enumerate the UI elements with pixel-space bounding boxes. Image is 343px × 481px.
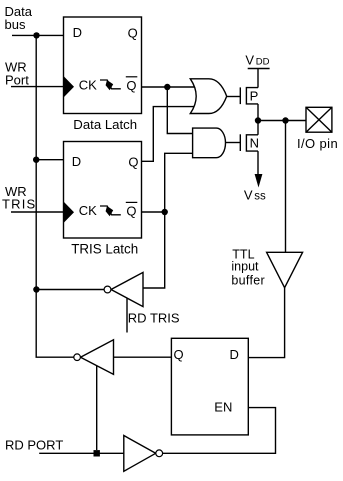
svg-text:CK: CK xyxy=(79,77,97,92)
svg-text:DD: DD xyxy=(256,57,270,68)
svg-text:P: P xyxy=(250,88,259,103)
svg-text:Data Latch: Data Latch xyxy=(73,117,137,132)
svg-text:D: D xyxy=(73,25,82,40)
svg-text:CK: CK xyxy=(79,203,97,218)
svg-text:D: D xyxy=(230,347,239,362)
svg-text:TRIS Latch: TRIS Latch xyxy=(71,242,138,257)
svg-text:V: V xyxy=(244,188,253,203)
svg-text:ss: ss xyxy=(254,191,266,203)
svg-text:D: D xyxy=(72,154,81,169)
svg-text:Q: Q xyxy=(126,204,136,219)
svg-text:TRIS: TRIS xyxy=(2,196,36,211)
svg-text:RD TRIS: RD TRIS xyxy=(128,311,180,326)
svg-text:N: N xyxy=(250,136,259,151)
svg-text:Port: Port xyxy=(5,72,29,87)
svg-text:V: V xyxy=(245,53,254,68)
svg-text:EN: EN xyxy=(214,400,232,415)
svg-text:I/O pin: I/O pin xyxy=(297,136,338,151)
svg-text:Q: Q xyxy=(174,347,184,362)
svg-text:Q: Q xyxy=(128,155,138,170)
svg-text:RD PORT: RD PORT xyxy=(5,437,63,452)
svg-text:input: input xyxy=(231,259,259,273)
svg-text:Q: Q xyxy=(128,25,138,40)
svg-text:bus: bus xyxy=(5,17,26,32)
svg-text:Q: Q xyxy=(126,78,136,93)
svg-text:buffer: buffer xyxy=(231,273,265,287)
